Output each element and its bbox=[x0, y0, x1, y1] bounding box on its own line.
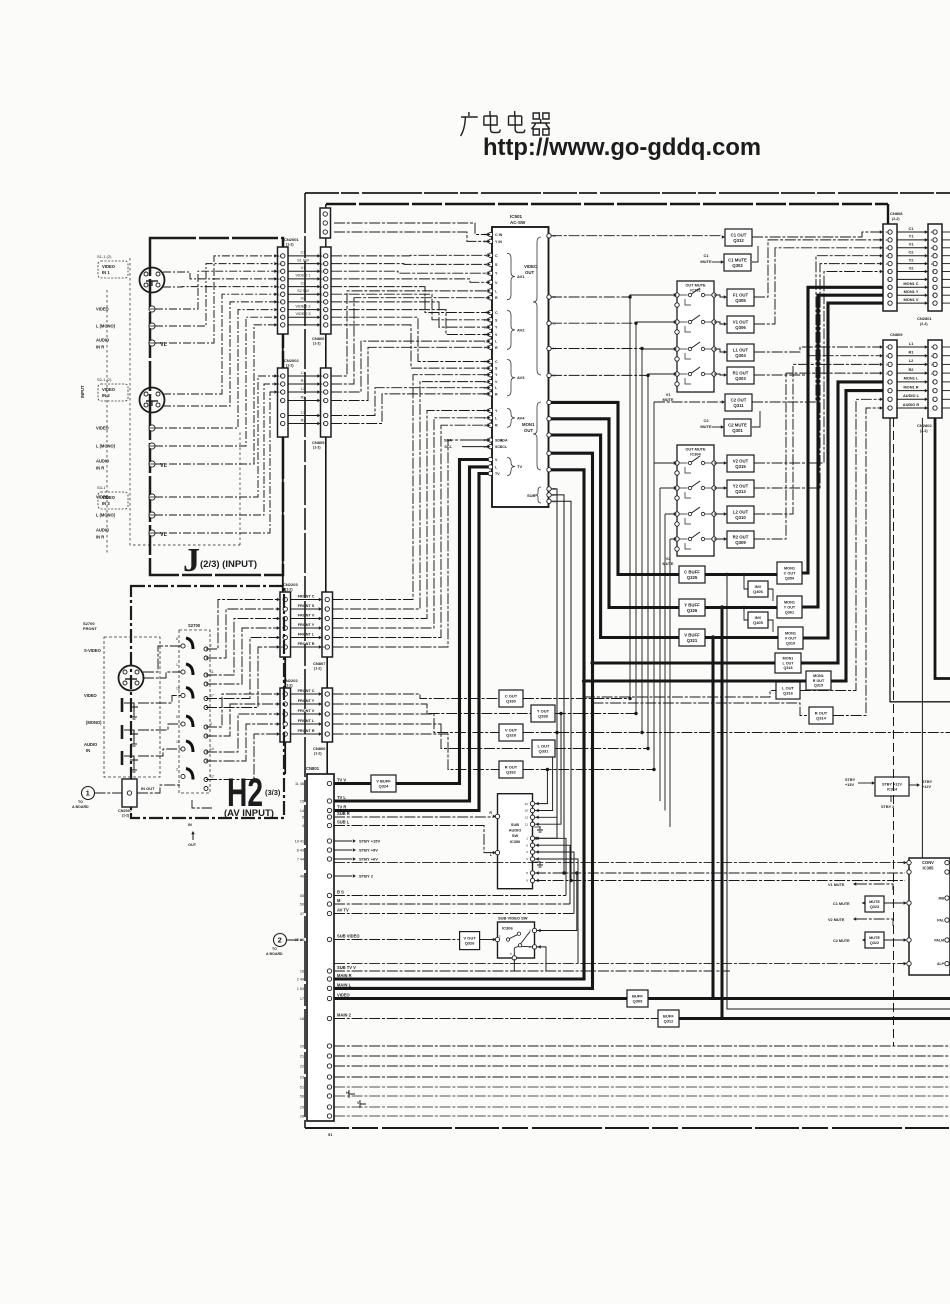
arrowhead CN805 pin 4 bbox=[317, 399, 320, 403]
svg-text:S1-1 (2): S1-1 (2) bbox=[97, 254, 112, 259]
svg-text:2: 2 bbox=[278, 936, 282, 945]
transistor C BUFF Q325 bbox=[679, 566, 705, 583]
svg-text:Q315: Q315 bbox=[735, 464, 746, 469]
junction MON1 R bbox=[582, 679, 586, 683]
transistor V OUT Q326 bbox=[460, 932, 480, 950]
svg-text:M: M bbox=[337, 898, 341, 903]
arrowhead IC501 fan3 6 bbox=[487, 438, 490, 442]
svg-text:7: 7 bbox=[280, 414, 282, 418]
svg-text:(2/3) (INPUT): (2/3) (INPUT) bbox=[200, 559, 257, 570]
transistor L2 OUT Q310 bbox=[727, 506, 754, 523]
junction IC350 t1 bbox=[546, 768, 549, 771]
transistor L OUT Q316 bbox=[776, 682, 800, 699]
svg-text:AV3: AV3 bbox=[517, 375, 525, 380]
svg-text:http://www.go-gddq.com: http://www.go-gddq.com bbox=[483, 134, 761, 161]
wire CN2203-CN807 pin 1 bbox=[291, 599, 320, 601]
svg-text:Y2: Y2 bbox=[909, 257, 915, 262]
svg-text:15: 15 bbox=[321, 300, 325, 304]
svg-text:5: 5 bbox=[510, 952, 512, 956]
svg-text:9: 9 bbox=[324, 732, 326, 736]
wire conv row 862 bbox=[334, 862, 906, 864]
svg-text:51: 51 bbox=[300, 1085, 304, 1089]
arrow out marker bbox=[188, 823, 195, 840]
wire J jack run 10 bbox=[155, 325, 275, 464]
pin numbers CN2002 bbox=[278, 374, 282, 426]
wire IC501 videoout 1 bbox=[551, 296, 630, 298]
arrowhead IC304 out 2 bbox=[724, 486, 727, 490]
arrowhead IC501 fan2 5 bbox=[487, 386, 490, 390]
arrowhead IC306 p2 bbox=[538, 945, 541, 949]
svg-text:1: 1 bbox=[932, 301, 934, 305]
bus right vert 934 bbox=[935, 418, 950, 679]
svg-text:Q313: Q313 bbox=[735, 489, 746, 494]
jack labels H2 board bbox=[84, 648, 102, 753]
svg-text:CN2001: CN2001 bbox=[284, 237, 299, 242]
svg-text:9: 9 bbox=[323, 399, 325, 403]
svg-text:17: 17 bbox=[931, 254, 935, 258]
stub right CN2802 2 bbox=[942, 355, 950, 357]
svg-text:V2: V2 bbox=[909, 265, 915, 270]
svg-text:R3: R3 bbox=[301, 418, 306, 422]
svg-text:38: 38 bbox=[553, 234, 557, 238]
svg-text:FRONT R: FRONT R bbox=[298, 642, 315, 646]
svg-text:Q312: Q312 bbox=[664, 1019, 675, 1024]
svg-text:3: 3 bbox=[280, 422, 282, 426]
label V2 MUTE bbox=[662, 556, 673, 566]
arrowhead CN2802 pin 4 bbox=[925, 371, 928, 375]
bus TV V bbox=[396, 460, 488, 784]
svg-text:7: 7 bbox=[324, 722, 326, 726]
wire IC501 videoout 3 bbox=[551, 348, 642, 350]
wire CN807 row 3 to IC501 bbox=[333, 411, 489, 619]
arrowhead CN2801 pin 1 bbox=[925, 230, 928, 234]
svg-text:18: 18 bbox=[278, 374, 282, 378]
wire SUB R bbox=[551, 501, 571, 880]
svg-text:14: 14 bbox=[931, 354, 935, 358]
svg-text:IC304: IC304 bbox=[690, 452, 701, 457]
connector CN804 top small bbox=[320, 208, 331, 238]
wire Y OUT row bbox=[555, 713, 636, 715]
header Chinese title glyphs bbox=[461, 111, 550, 136]
svg-text:L2 OUT: L2 OUT bbox=[733, 509, 749, 514]
svg-text:30: 30 bbox=[553, 417, 557, 421]
stub right CN2802 3 bbox=[942, 363, 950, 365]
connector CN801 outline bbox=[307, 774, 334, 1121]
svg-text:23: 23 bbox=[300, 1075, 304, 1079]
svg-text:V1 OUT: V1 OUT bbox=[733, 319, 749, 324]
svg-text:(2-2): (2-2) bbox=[920, 322, 928, 326]
wire mute net vertical 7 bbox=[664, 514, 666, 811]
svg-text:1: 1 bbox=[176, 663, 178, 667]
svg-text:MB: MB bbox=[939, 897, 945, 901]
arrowhead J run 11 bbox=[274, 374, 277, 378]
svg-text:1: 1 bbox=[323, 323, 325, 327]
arrowhead CN806 pin 4 bbox=[317, 277, 320, 281]
svg-text:C: C bbox=[495, 311, 498, 315]
svg-text:10: 10 bbox=[484, 318, 488, 322]
svg-text:IN: IN bbox=[188, 823, 192, 827]
wire R OUT feed bbox=[593, 703, 810, 716]
svg-text:R: R bbox=[489, 811, 492, 815]
wire STBY +9V bbox=[334, 849, 352, 851]
wire CN807-CN806 link bbox=[326, 657, 328, 688]
svg-text:H: H bbox=[346, 1091, 349, 1095]
wire C2OUT feed bbox=[654, 401, 722, 403]
arrowhead CN806 pin 2 bbox=[317, 262, 320, 266]
arrowhead IC350 873 bbox=[536, 871, 539, 875]
wire IC304 feed 2 bbox=[660, 487, 674, 489]
wire CN2202-CN806 pin 2 bbox=[291, 703, 320, 705]
stub right CN2801 5 bbox=[942, 263, 950, 265]
wire S2700 out 10 bbox=[206, 724, 277, 761]
svg-text:27: 27 bbox=[553, 468, 557, 472]
arrowhead CN2801 pin 8 bbox=[925, 286, 928, 290]
wire S2700 out 6 bbox=[206, 647, 277, 708]
svg-text:15: 15 bbox=[886, 345, 890, 349]
arrowhead conv 862 bbox=[904, 861, 907, 865]
arrowhead CN808 in 3 bbox=[880, 246, 883, 250]
svg-text:SUB VIDEO SW: SUB VIDEO SW bbox=[498, 916, 528, 921]
svg-text:(MONO): (MONO) bbox=[86, 720, 102, 725]
main board outline bottom border bbox=[305, 1127, 950, 1129]
svg-text:IC350: IC350 bbox=[510, 839, 520, 844]
arrowhead CN806 pin 3 bbox=[317, 269, 320, 273]
wire C1MUTE arrow stub bbox=[712, 261, 722, 263]
svg-text:Q326: Q326 bbox=[687, 608, 698, 613]
arrowhead S2700 out 7 bbox=[277, 692, 280, 696]
svg-text:13: 13 bbox=[886, 363, 890, 367]
label CN2802 bbox=[917, 423, 932, 433]
label box VIDEO IN 2 bbox=[97, 377, 128, 401]
connector CN2007 bbox=[122, 779, 137, 807]
node circled 2 bbox=[274, 934, 287, 947]
wire CN806 column top bbox=[325, 238, 327, 247]
svg-text:B S: B S bbox=[337, 890, 344, 895]
transistor V BUFF Q321 bbox=[679, 629, 705, 646]
wire CN2203-CN807 pin 5 bbox=[291, 637, 320, 639]
label CN2001 bbox=[284, 237, 299, 247]
svg-text:IC501: IC501 bbox=[510, 214, 523, 219]
arrowhead sub l in bbox=[493, 851, 496, 855]
svg-text:V2 MUTE: V2 MUTE bbox=[828, 918, 845, 922]
svg-text:6: 6 bbox=[526, 857, 528, 861]
arrowhead stby in bbox=[872, 781, 875, 785]
svg-text:PALM: PALM bbox=[934, 939, 944, 943]
arrowhead IC304 in 3 bbox=[674, 512, 677, 516]
wire CN2001-CN806 pin 3 bbox=[288, 270, 318, 272]
connector CN806 upper bbox=[321, 247, 332, 334]
arrowhead IC350 t2 bbox=[536, 809, 539, 813]
svg-text:24: 24 bbox=[321, 269, 325, 273]
svg-text:AV4: AV4 bbox=[517, 415, 525, 420]
wire CN805 row 3 to IC501 bbox=[331, 341, 488, 392]
svg-text:L: L bbox=[490, 853, 493, 857]
svg-text:31: 31 bbox=[484, 458, 488, 462]
transistor Y OUT Q338 bbox=[531, 705, 555, 722]
analog switch IC304 bbox=[675, 445, 716, 556]
wire Y IN feed bbox=[334, 232, 488, 241]
svg-text:Q324: Q324 bbox=[379, 784, 390, 789]
wire IC302 out 3 bbox=[714, 349, 725, 352]
svg-text:Q321: Q321 bbox=[687, 638, 698, 643]
svg-text:Y IN: Y IN bbox=[495, 240, 502, 244]
pin numbers CN809 bbox=[886, 345, 890, 410]
wire CN2202-CN806 pin 4 bbox=[291, 723, 320, 725]
svg-text:R: R bbox=[495, 296, 498, 300]
svg-text:TV V: TV V bbox=[337, 778, 346, 783]
svg-text:5: 5 bbox=[302, 815, 304, 819]
svg-text:AUDIO: AUDIO bbox=[96, 338, 110, 343]
transistor Y BUFF Q326 bbox=[679, 599, 705, 616]
arrowhead S2700 out 11 bbox=[277, 732, 280, 736]
svg-text:Q325: Q325 bbox=[687, 575, 698, 580]
svg-text:22: 22 bbox=[300, 1064, 304, 1068]
svg-text:C2: C2 bbox=[909, 250, 915, 255]
wire bottom bus row 7 bbox=[334, 1106, 950, 1108]
label V1 MUTE bbox=[662, 392, 673, 402]
wire CN805 row 6 to IC501 bbox=[331, 394, 488, 424]
label S2700 FRONT bbox=[83, 621, 97, 631]
arrowhead IC501 fan1 6 bbox=[487, 318, 490, 322]
svg-text:C: C bbox=[495, 360, 498, 364]
arrowhead CN808 in 9 bbox=[880, 363, 883, 367]
wire SUB L row bbox=[334, 826, 494, 853]
arrowhead CN2802 pin 8 bbox=[925, 406, 928, 410]
svg-text:L2: L2 bbox=[909, 358, 914, 363]
wire CN808-CN2801 pin 10 bbox=[897, 302, 925, 304]
transistor BUFF Q312 bbox=[658, 1010, 679, 1027]
arrowhead CN808 in 7 bbox=[880, 345, 883, 349]
svg-text:MAIN L: MAIN L bbox=[337, 983, 352, 988]
svg-text:(1-2): (1-2) bbox=[285, 684, 293, 688]
svg-text:24: 24 bbox=[278, 269, 282, 273]
IC501 left pins bbox=[488, 232, 492, 475]
brace VIDEO OUT bbox=[533, 237, 541, 375]
svg-text:1: 1 bbox=[887, 406, 889, 410]
arrowhead CN2801 pin 3 bbox=[925, 246, 928, 250]
wire S2700 out 2 bbox=[206, 609, 277, 658]
svg-text:7: 7 bbox=[282, 626, 284, 630]
arrowhead IC501 fan1 2 bbox=[487, 263, 490, 267]
svg-text:17: 17 bbox=[321, 382, 325, 386]
svg-text:1: 1 bbox=[485, 254, 487, 258]
arrowhead CN2802 pin 2 bbox=[925, 354, 928, 358]
arrowhead IC350 880 bbox=[536, 879, 539, 883]
svg-text:MON1: MON1 bbox=[813, 674, 824, 678]
arrowhead CN807 pin 1 bbox=[319, 598, 322, 602]
switch S2700 unit 2 bbox=[181, 664, 208, 686]
wire L OUT to CN809 bbox=[800, 399, 880, 690]
switch block S2700 outline bbox=[179, 630, 210, 793]
svg-text:(3/3): (3/3) bbox=[265, 788, 281, 797]
svg-text:TV L: TV L bbox=[337, 795, 346, 800]
label CN2202 bbox=[283, 678, 298, 688]
IC350 pins bbox=[489, 801, 543, 882]
wire IC350 row 880 bbox=[535, 880, 905, 882]
arrowhead CN806L pin 2 bbox=[319, 702, 322, 706]
svg-text:CN2802: CN2802 bbox=[917, 423, 932, 428]
transistor V2 OUT Q315 bbox=[727, 455, 754, 472]
S-video DIN connector J1 bbox=[140, 268, 165, 293]
junction INV2 bbox=[742, 606, 745, 609]
stub right CN2802 5 bbox=[942, 381, 950, 383]
junction MON1 L bbox=[590, 661, 594, 665]
arrowhead IC306 in bbox=[493, 938, 496, 942]
svg-text:2: 2 bbox=[932, 398, 934, 402]
wire S2700 bottom out bbox=[192, 800, 212, 808]
arrowhead CN2802 pin 6 bbox=[925, 389, 928, 393]
svg-text:C IN: C IN bbox=[495, 233, 503, 237]
arrowhead J run 3 bbox=[274, 269, 277, 273]
junction dot vo 3 bbox=[640, 347, 643, 350]
bus video out vert bbox=[648, 638, 713, 999]
wire IC350 top pin 2 bbox=[535, 749, 553, 811]
svg-text:5: 5 bbox=[932, 286, 934, 290]
wire mute net vertical 5 bbox=[653, 402, 655, 770]
wire H2 audioL to switch bbox=[138, 724, 181, 730]
svg-text:Q309: Q309 bbox=[633, 999, 644, 1004]
arrowhead IC501 fan1 1 bbox=[487, 254, 490, 258]
svg-text:AUDIO L: AUDIO L bbox=[903, 393, 920, 398]
svg-text:+15V: +15V bbox=[845, 783, 854, 787]
arrowhead CN2802 pin 7 bbox=[925, 398, 928, 402]
IC IC305 CONV outline bbox=[909, 858, 950, 975]
transistor INV Q406 bbox=[748, 581, 768, 597]
svg-text:1: 1 bbox=[324, 692, 326, 696]
pin numbers CN807 bbox=[323, 598, 327, 650]
svg-text:20: 20 bbox=[278, 262, 282, 266]
wire STBY +15V bbox=[334, 840, 352, 842]
svg-text:3: 3 bbox=[324, 607, 326, 611]
pin numbers IC501 left bbox=[484, 233, 488, 476]
CN801 pins and pin numbers bbox=[295, 781, 332, 1118]
svg-text:CN2203: CN2203 bbox=[283, 582, 298, 587]
svg-text:9: 9 bbox=[323, 308, 325, 312]
arrowhead IC501 fan1 5 bbox=[487, 311, 490, 315]
wire S2700 out 7 bbox=[206, 694, 277, 727]
svg-text:29: 29 bbox=[300, 1105, 304, 1109]
wire C1 MUTE hook bbox=[752, 246, 758, 262]
wire CN808-CN2801 pin 9 bbox=[897, 294, 925, 296]
wire IC304 feed 3 bbox=[665, 513, 674, 515]
connector CN809 bbox=[883, 340, 897, 418]
bus MON1 V out bbox=[705, 636, 778, 639]
svg-text:OUT: OUT bbox=[525, 270, 534, 275]
transistor MON1 V OUT Q319 bbox=[778, 627, 803, 649]
arrowhead IC302 out 4 bbox=[724, 373, 727, 377]
wire mute feed 3 bbox=[642, 348, 674, 351]
wire C IN feed bbox=[334, 223, 488, 235]
bus TV V in bbox=[334, 782, 371, 785]
wire CN806 row 7 to IC501 bbox=[331, 302, 488, 327]
svg-text:OUT: OUT bbox=[524, 428, 533, 433]
svg-text:7: 7 bbox=[324, 626, 326, 630]
phono jack VIDEO H2 bbox=[122, 698, 138, 719]
wire J jack run 9 bbox=[155, 317, 275, 446]
svg-text:7: 7 bbox=[210, 644, 212, 648]
svg-text:Y1: Y1 bbox=[909, 234, 915, 239]
arrowhead CN807 pin 2 bbox=[319, 607, 322, 611]
svg-text:MON1 Y: MON1 Y bbox=[904, 289, 919, 294]
svg-text:C1: C1 bbox=[909, 226, 915, 231]
transistor MON1 C OUT Q359 bbox=[777, 562, 802, 584]
analog switch IC302 bbox=[675, 281, 716, 392]
junction dot vo 2 bbox=[634, 322, 637, 325]
svg-text:19: 19 bbox=[278, 285, 282, 289]
wire S2700 out 3 bbox=[206, 619, 277, 676]
bus VIDEO row bbox=[334, 997, 627, 1000]
arrowhead S2700 out 10 bbox=[277, 722, 280, 726]
arrowhead CN807 pin 3 bbox=[319, 617, 322, 621]
board J outline bbox=[150, 238, 283, 575]
arrowhead J run 9 bbox=[274, 315, 277, 319]
label CN806 lower bbox=[313, 746, 326, 756]
svg-text:VIDEO: VIDEO bbox=[96, 426, 110, 431]
arrowhead J run 12 bbox=[274, 382, 277, 386]
svg-text:46: 46 bbox=[300, 874, 304, 878]
svg-text:STBY: STBY bbox=[922, 780, 933, 784]
arrowhead CN2801 pin 6 bbox=[925, 270, 928, 274]
svg-text:AUDIO R: AUDIO R bbox=[903, 402, 920, 407]
svg-text:(1-2): (1-2) bbox=[286, 364, 294, 368]
svg-text:6: 6 bbox=[932, 278, 934, 282]
wire CN2002-CN805 pin 3 bbox=[288, 391, 318, 393]
IC305 pins bbox=[907, 860, 949, 966]
wire INV Q405 out bbox=[768, 620, 773, 632]
IC501 left pin labels bbox=[495, 233, 503, 476]
wire Q323 to IC305 bbox=[884, 902, 906, 904]
transistor R OUT Q332 bbox=[499, 761, 523, 778]
svg-text:20: 20 bbox=[931, 246, 935, 250]
bus TV R bbox=[334, 474, 488, 811]
wire conv row 963 bbox=[334, 963, 906, 965]
svg-text:4: 4 bbox=[302, 824, 304, 828]
wire S2700 out 1 bbox=[206, 600, 277, 650]
wire IC306 pin3 bbox=[537, 873, 577, 931]
svg-text:16: 16 bbox=[278, 254, 282, 258]
wire stby out bbox=[909, 784, 917, 786]
junction 576 873 bbox=[575, 871, 578, 874]
svg-text:C2: C2 bbox=[703, 418, 709, 423]
arrowhead IC501 fan1 10 bbox=[487, 366, 490, 370]
arrowhead IC501 fan1 3 bbox=[487, 271, 490, 275]
S-video DIN connector H2 bbox=[119, 666, 144, 691]
svg-text:7 44: 7 44 bbox=[297, 857, 304, 861]
svg-text:Y OUT: Y OUT bbox=[784, 605, 796, 609]
wire CN2203-CN807 pin 3 bbox=[291, 618, 320, 620]
brace group AV1 bbox=[507, 253, 515, 299]
junction front 654 bbox=[652, 768, 655, 771]
svg-text:R2: R2 bbox=[909, 367, 915, 372]
wire CN807 row 1 to IC501 bbox=[333, 375, 489, 600]
wire IC350 mid pin 1 bbox=[535, 838, 566, 895]
bus main2 row right bbox=[679, 1017, 950, 1020]
bus video row right bbox=[713, 997, 950, 1000]
svg-text:VIDEO 1: VIDEO 1 bbox=[296, 274, 311, 278]
svg-text:IN R: IN R bbox=[96, 535, 104, 540]
label C1 MUTE input bbox=[700, 253, 724, 264]
RCA input jacks J board bbox=[149, 306, 155, 536]
svg-text:6: 6 bbox=[887, 278, 889, 282]
svg-text:Q312: Q312 bbox=[733, 238, 744, 243]
arrowhead S2700 out 4 bbox=[277, 626, 280, 630]
wire CN806 row 1 to IC501 bbox=[331, 254, 488, 257]
arrowhead IC304 in 4 bbox=[674, 537, 677, 541]
svg-text:Q332: Q332 bbox=[506, 770, 517, 775]
wire V OUT row bbox=[523, 732, 950, 734]
wire CN2203-CN807 pin 2 bbox=[291, 608, 320, 610]
svg-text:IC306: IC306 bbox=[502, 926, 513, 931]
